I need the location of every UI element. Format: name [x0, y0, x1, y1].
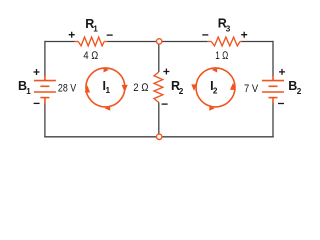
svg-text:28 V: 28 V	[58, 82, 77, 94]
wire left vertical lower	[44, 102, 46, 137]
I1 arrowhead top	[104, 67, 109, 72]
battery B2	[262, 76, 284, 105]
minus sign right of R1	[107, 34, 113, 36]
I2 arrowhead top	[212, 67, 217, 72]
label B2	[288, 79, 301, 96]
svg-text:3: 3	[226, 25, 231, 34]
I1 arrowhead left	[85, 85, 90, 92]
plus sign top of B1	[34, 69, 40, 75]
plus sign top of R2	[163, 69, 169, 75]
label B1	[18, 79, 31, 96]
I1 arrowhead bottom	[105, 106, 111, 111]
label R3	[218, 17, 231, 34]
svg-text:4 Ω: 4 Ω	[83, 50, 98, 62]
wire top-right segment	[241, 41, 273, 43]
wire top-left segment	[45, 41, 75, 43]
minus sign bottom of R2	[162, 103, 168, 105]
mesh current I1 circle (clockwise)	[86, 68, 125, 107]
label R1	[85, 17, 98, 34]
battery B1	[34, 76, 56, 105]
mesh current I2 circle (counterclockwise)	[196, 68, 235, 107]
I2 arrowhead left	[191, 84, 197, 91]
I2 arrowhead bottom	[209, 106, 214, 111]
plus sign right of R3	[241, 32, 247, 38]
resistor R2 (2 ohm) vertical zigzag	[154, 72, 163, 103]
svg-text:2: 2	[297, 87, 302, 96]
svg-text:2 Ω: 2 Ω	[133, 82, 149, 94]
minus sign left of R3	[202, 34, 208, 36]
wire right vertical upper	[272, 41, 274, 77]
wire bottom	[44, 136, 274, 138]
wire top-middle segment	[108, 41, 208, 43]
wire left vertical upper	[44, 41, 46, 77]
resistor R1 (4 ohm) zigzag	[74, 37, 107, 46]
I2 arrowhead right	[230, 83, 236, 90]
wire right vertical lower	[272, 102, 274, 137]
node bottom (junction)	[157, 134, 162, 139]
minus sign bottom of B2	[278, 103, 284, 105]
I1 arrowhead right	[122, 85, 128, 92]
wire middle vertical upper lead	[158, 42, 160, 73]
svg-text:2: 2	[179, 87, 184, 96]
svg-text:1: 1	[26, 87, 31, 96]
plus sign left of R1	[69, 32, 75, 38]
node top (junction)	[157, 39, 162, 44]
plus sign top of B2	[279, 69, 285, 75]
label I1	[103, 79, 111, 95]
svg-text:1: 1	[106, 86, 111, 95]
svg-text:7 V: 7 V	[244, 83, 259, 95]
resistor R3 (1 ohm) zigzag	[208, 37, 242, 46]
wire middle vertical lower lead	[158, 103, 160, 137]
label I2	[210, 79, 218, 96]
svg-text:1 Ω: 1 Ω	[215, 50, 229, 62]
label R2	[171, 79, 184, 96]
svg-text:1: 1	[93, 24, 98, 33]
svg-text:2: 2	[213, 87, 218, 96]
minus sign bottom of B1	[34, 102, 40, 104]
